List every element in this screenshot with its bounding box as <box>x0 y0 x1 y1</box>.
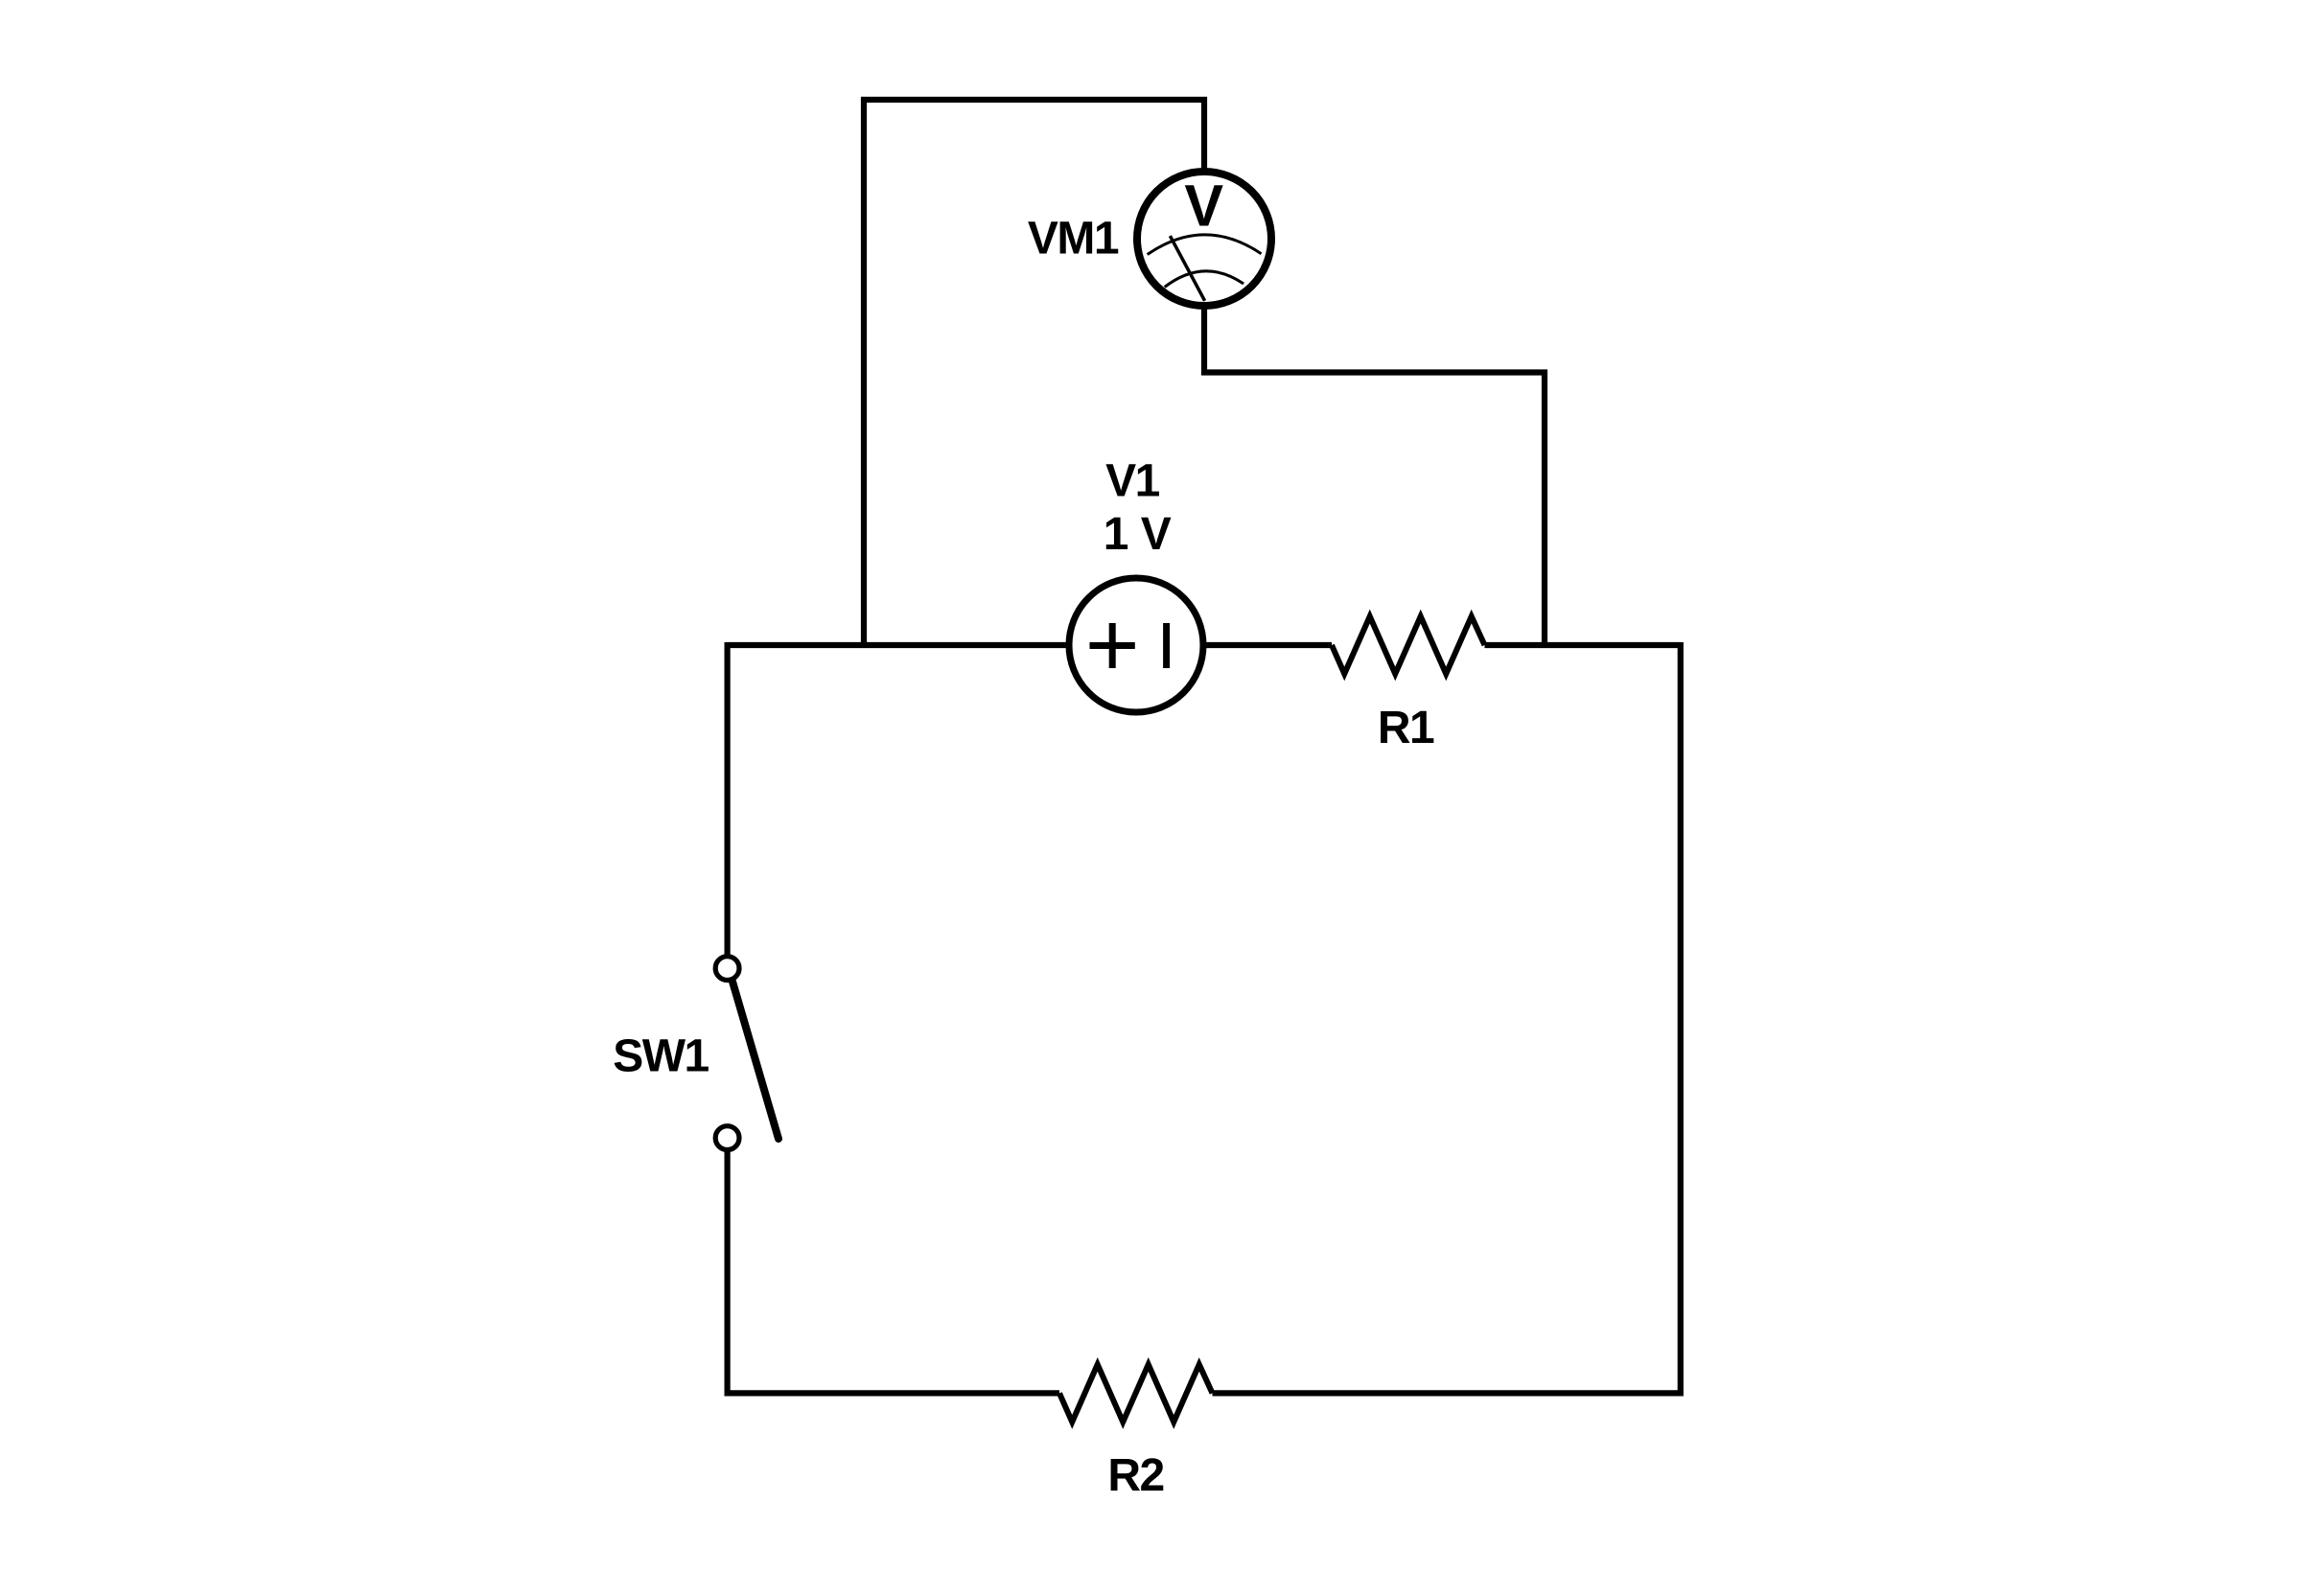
SW1 top terminal circle <box>715 957 739 981</box>
wire: switch bottom lead <box>724 1151 730 1396</box>
wire: top rail + left vertical (VM1 loop) <box>864 100 1204 648</box>
wire: switch top lead <box>724 642 730 955</box>
resistor R2 <box>1059 1364 1213 1422</box>
VM1 needle <box>1170 236 1204 301</box>
wire: right vertical <box>1678 642 1684 1397</box>
V1 plus sign <box>1090 623 1135 668</box>
svg-text:1 V: 1 V <box>1104 509 1172 560</box>
SW1 blade <box>732 982 779 1139</box>
svg-text:VM1: VM1 <box>1028 214 1119 265</box>
VM1 scale arc lower <box>1165 271 1243 288</box>
svg-text:R1: R1 <box>1378 703 1434 753</box>
svg-text:V1: V1 <box>1105 456 1160 507</box>
VM1 scale arc upper <box>1148 235 1262 255</box>
svg-text:V: V <box>1184 173 1223 239</box>
voltmeter VM1 <box>1137 172 1271 306</box>
wire: bottom rail left segment <box>728 1390 1059 1393</box>
V1 circle <box>1069 578 1203 712</box>
voltage source V1 <box>1069 578 1203 712</box>
svg-text:SW1: SW1 <box>613 1031 709 1082</box>
switch SW1 <box>715 957 779 1150</box>
wire: V1 to R1 <box>1202 642 1332 648</box>
V1 minus bar <box>1163 623 1170 668</box>
wire: main rail left segment (switch corner to V1) <box>728 642 1070 648</box>
svg-text:R2: R2 <box>1107 1450 1163 1501</box>
wire: R1 to right corner <box>1485 642 1681 648</box>
resistor R1 <box>1332 616 1485 674</box>
VM1 circle <box>1137 172 1271 306</box>
wire: bottom rail right segment <box>1213 1390 1681 1396</box>
SW1 bottom terminal circle <box>715 1126 739 1150</box>
wire: VM1 bottom lead, right jog down to main rail <box>1204 309 1545 648</box>
